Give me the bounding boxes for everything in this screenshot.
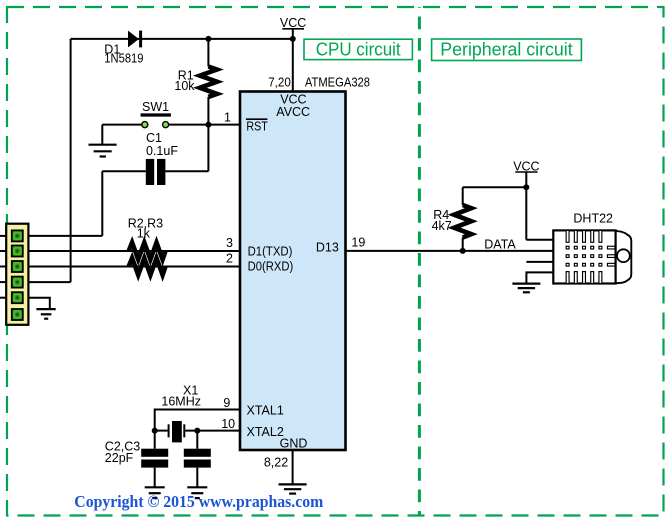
power flag VCC (right) xyxy=(513,159,539,173)
wire C1 left lead xyxy=(102,170,146,172)
wire IC GND pins 8,22 to ground xyxy=(292,450,294,484)
svg-text:GND: GND xyxy=(280,436,308,450)
wire D13 to DHT22 DATA xyxy=(346,250,554,252)
resistor R4 xyxy=(454,205,471,238)
svg-text:7,20: 7,20 xyxy=(268,75,291,89)
svg-text:9: 9 xyxy=(223,396,230,410)
svg-text:22pF: 22pF xyxy=(105,451,134,465)
wire DHT22 pin4 to ground xyxy=(526,272,553,283)
svg-text:4k7: 4k7 xyxy=(432,219,452,233)
ground (IC GND) xyxy=(279,484,307,493)
node junction R4 / DATA xyxy=(460,248,466,254)
svg-text:Peripheral circuit: Peripheral circuit xyxy=(440,39,573,60)
connector J1 pin pads 1-6 xyxy=(12,230,23,320)
diode D1 xyxy=(128,31,142,48)
wire J1 pin1 to C1 branch xyxy=(28,235,102,237)
wire R4 top lead xyxy=(462,187,464,205)
wire DHT22 pin1 to VCC xyxy=(526,239,553,241)
label box "Peripheral circuit" xyxy=(432,39,582,61)
svg-text:0.1uF: 0.1uF xyxy=(146,144,178,158)
svg-text:SW1: SW1 xyxy=(142,100,169,114)
svg-text:19: 19 xyxy=(351,235,365,249)
wire SW1 down to ground xyxy=(101,125,103,145)
wire left rail vertical xyxy=(70,39,72,282)
svg-text:CPU circuit: CPU circuit xyxy=(316,38,402,59)
ground (DHT22) xyxy=(512,284,540,293)
connector J1 pin stubs xyxy=(0,236,8,298)
sensor DHT22 mounting tab xyxy=(612,231,631,284)
ground (C3) xyxy=(187,487,207,498)
node junction RST net xyxy=(205,122,211,128)
wire C2 top lead xyxy=(154,431,156,449)
svg-text:16MHz: 16MHz xyxy=(161,395,201,409)
svg-text:1N5819: 1N5819 xyxy=(104,52,143,66)
wire C3 bottom lead xyxy=(196,468,198,488)
power flag VCC (top) xyxy=(280,16,306,30)
crystal X1 xyxy=(169,421,185,442)
svg-text:2: 2 xyxy=(226,252,233,266)
svg-text:XTAL2: XTAL2 xyxy=(247,425,284,439)
pin name RST (active low overline) xyxy=(246,119,268,134)
divider between CPU and Peripheral circuit sections xyxy=(418,7,421,516)
wire J1 pin3 to IC pin 2 RXD xyxy=(28,266,240,268)
wire C3 top lead xyxy=(196,431,198,449)
wire J1 pin5 to ground xyxy=(28,298,49,309)
node junction VCC / top rail xyxy=(290,36,296,42)
resistor R1 xyxy=(200,67,217,97)
ground (SW1) xyxy=(89,145,117,157)
svg-text:D13: D13 xyxy=(316,240,339,254)
wire VCC top rail xyxy=(71,38,293,40)
wire R4 bottom lead xyxy=(462,238,464,251)
capacitor C3 xyxy=(184,449,211,468)
svg-text:Copyright © 2015 www.praphas.c: Copyright © 2015 www.praphas.com xyxy=(74,492,323,511)
sensor DHT22 mounting hole xyxy=(617,249,630,262)
svg-text:ATMEGA328: ATMEGA328 xyxy=(305,75,370,89)
ground (J1 pin5) xyxy=(36,309,55,319)
wire crystal left lead xyxy=(155,430,168,432)
svg-text:RST: RST xyxy=(246,120,268,134)
wire DHT22 pin3 stub (NC) xyxy=(526,261,553,263)
wire C1 right lead xyxy=(165,170,208,172)
svg-text:DHT22: DHT22 xyxy=(573,212,613,226)
wire VCC flag down to IC pins 7,20 xyxy=(292,29,294,92)
svg-text:10k: 10k xyxy=(174,79,195,93)
wire VCC right drop to DHT22 pin1 xyxy=(525,172,527,240)
svg-text:1: 1 xyxy=(224,111,231,125)
IC U1 ATMEGA328 body xyxy=(240,92,346,451)
svg-text:8,22: 8,22 xyxy=(264,455,288,469)
wire SW1 left lead xyxy=(102,124,142,126)
capacitor C1 xyxy=(146,159,166,185)
svg-text:D0(RXD): D0(RXD) xyxy=(248,260,294,274)
svg-text:AVCC: AVCC xyxy=(276,105,310,119)
wire SW1 right lead to IC pin 1 xyxy=(169,124,241,126)
node junction crystal left / C2 xyxy=(152,428,158,434)
wire RST node down to C1 xyxy=(207,125,209,172)
wire XTAL1 pin to crystal left node xyxy=(155,410,240,431)
svg-text:10: 10 xyxy=(221,417,235,431)
wire R1 bottom lead xyxy=(207,97,209,125)
svg-text:D1(TXD): D1(TXD) xyxy=(248,244,293,258)
connector J1 body xyxy=(6,224,28,325)
wire J1 pin2 to IC pin 3 TXD xyxy=(28,250,240,252)
wire R1 top lead xyxy=(207,39,209,67)
wire VCC branch to R4 xyxy=(463,186,527,188)
label box "CPU circuit" xyxy=(304,38,412,59)
svg-text:VCC: VCC xyxy=(280,16,306,30)
switch SW1 xyxy=(141,115,171,128)
wire C2 bottom lead xyxy=(154,468,156,488)
wire crystal right lead to XTAL2 pin xyxy=(185,430,240,432)
ground (C2) xyxy=(145,487,165,498)
node junction VCC / R4 branch xyxy=(523,184,529,190)
svg-text:XTAL1: XTAL1 xyxy=(247,404,284,418)
node junction crystal right / C3 xyxy=(194,428,200,434)
node junction top of R1 xyxy=(205,36,211,42)
sensor DHT22 body xyxy=(553,230,615,283)
capacitor C2 xyxy=(141,449,168,468)
resistor R2 xyxy=(129,243,166,260)
wire J1 pin4 to left rail xyxy=(28,281,70,283)
svg-text:3: 3 xyxy=(226,236,233,250)
wire C1 left down to connector pin 1 xyxy=(101,171,103,236)
svg-text:DATA: DATA xyxy=(484,237,516,251)
sensor DHT22 vent grille xyxy=(566,230,615,283)
resistor R3 xyxy=(129,258,166,275)
